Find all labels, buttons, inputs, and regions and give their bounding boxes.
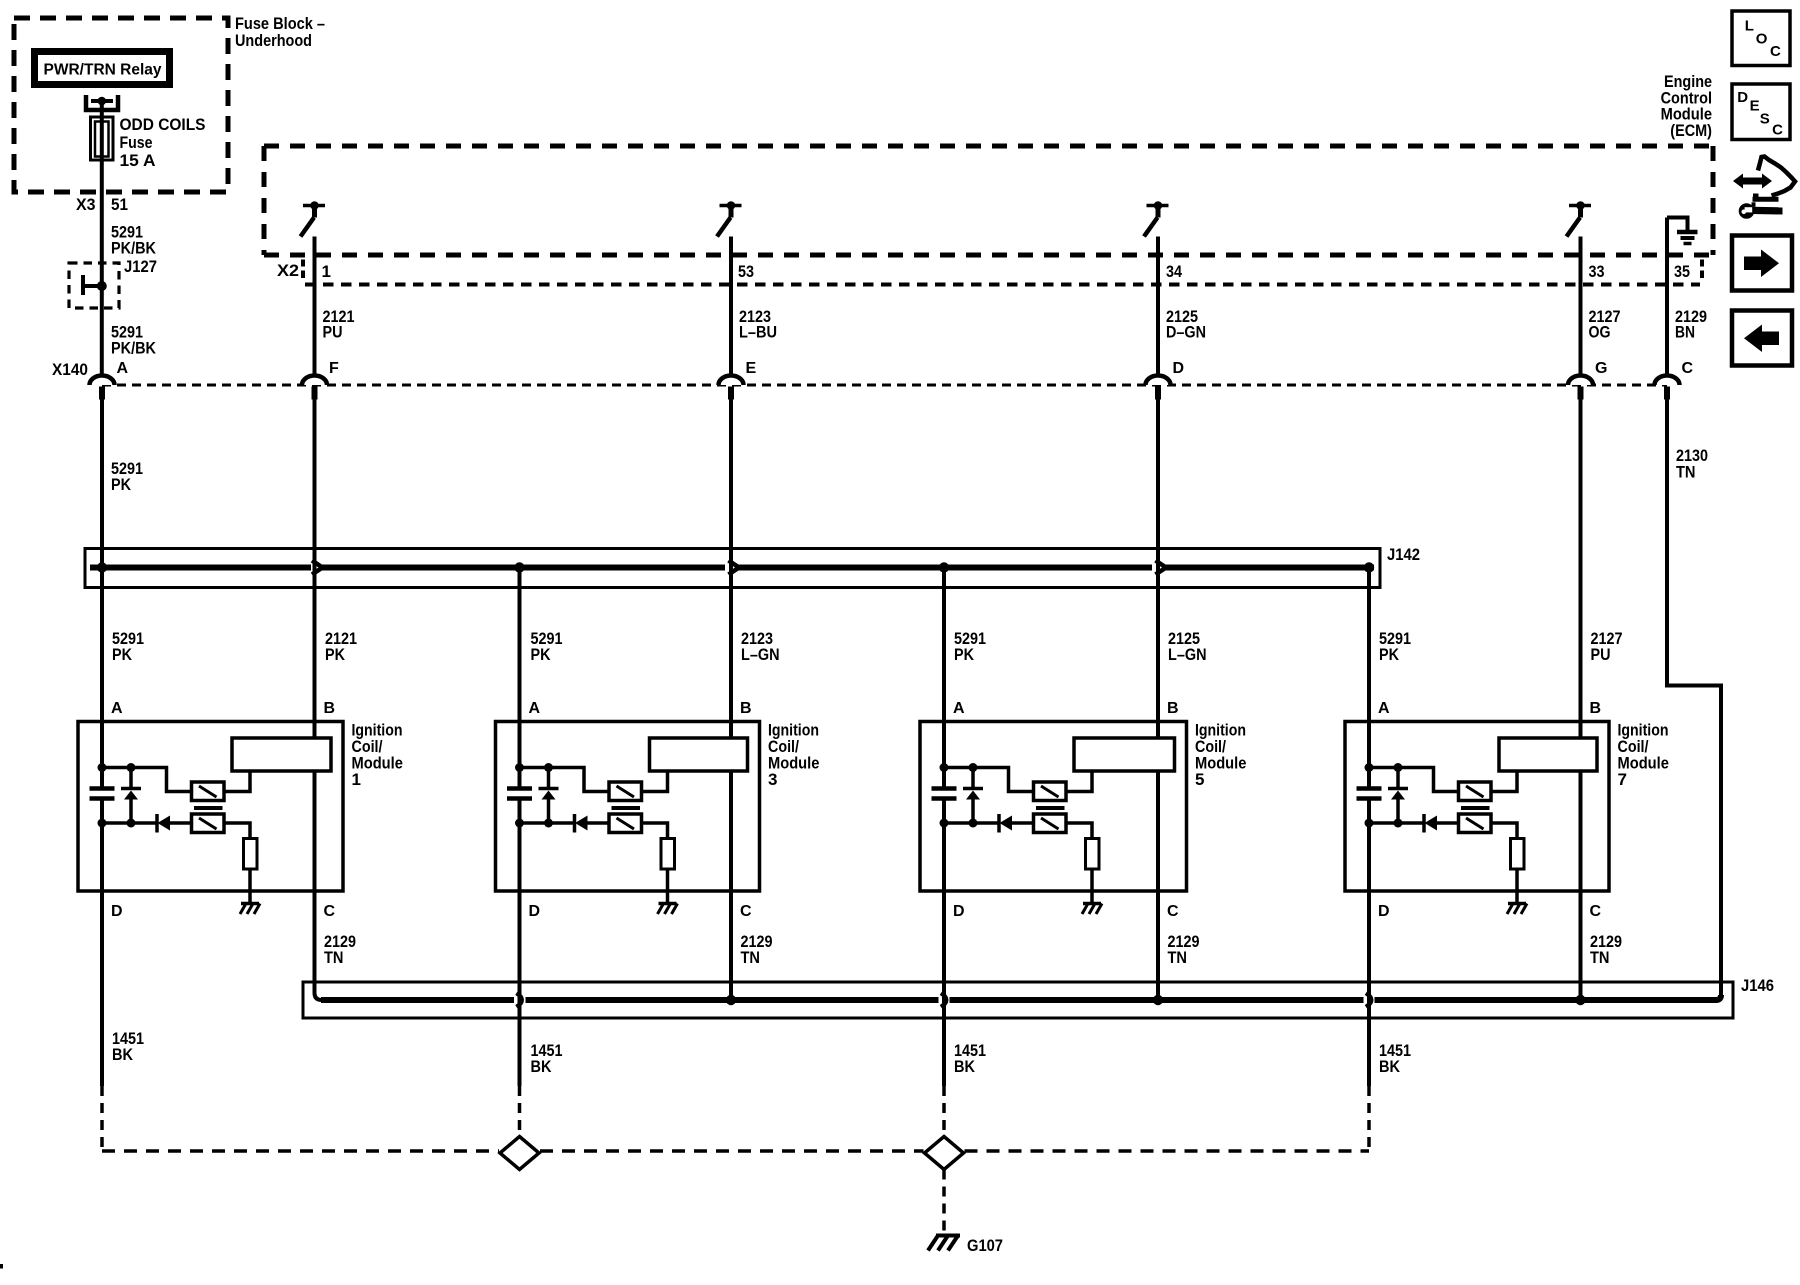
svg-text:X3: X3 xyxy=(76,195,96,214)
module 3 pin A-D wire xyxy=(518,801,522,892)
svg-text:Underhood: Underhood xyxy=(235,31,312,50)
module 5 internal lower node wire xyxy=(944,821,999,825)
connector X2 left separator xyxy=(301,260,305,279)
svg-text:1: 1 xyxy=(322,262,331,281)
svg-text:3: 3 xyxy=(768,770,777,789)
module 5 wire resistor to ground xyxy=(1090,868,1094,904)
wire 5291 PK to module pin A xyxy=(942,568,946,787)
J142 junction dot xyxy=(939,562,949,572)
splice pack J142 main line xyxy=(90,565,311,571)
icon DESC box xyxy=(1732,84,1790,140)
connector X140 terminal D xyxy=(1146,376,1171,385)
svg-text:OG: OG xyxy=(1589,323,1611,342)
module 1 pin A-D wire xyxy=(100,801,104,892)
module 5 transformer core xyxy=(1036,806,1065,810)
J146 junction dot xyxy=(1575,995,1585,1005)
module 5 transformer secondary winding xyxy=(1034,814,1067,833)
svg-text:15 A: 15 A xyxy=(120,151,156,170)
module 7 capacitor xyxy=(1357,786,1382,791)
module 3 chassis ground xyxy=(659,902,677,906)
svg-text:D: D xyxy=(1737,89,1748,106)
svg-text:C: C xyxy=(1167,903,1179,920)
J146 junction dot xyxy=(726,995,736,1005)
svg-text:A: A xyxy=(953,700,965,717)
module 5 pin B wire through coil xyxy=(1156,722,1160,738)
module 7 wire resistor to ground xyxy=(1515,868,1519,904)
wire 2121 col F xyxy=(313,399,317,738)
module 7 transformer core xyxy=(1461,806,1490,810)
module 3 wire winding2 to resistor xyxy=(642,823,668,839)
svg-text:C: C xyxy=(1590,903,1602,920)
splice pack J146 box xyxy=(303,982,1733,1018)
module 5 resistor xyxy=(1086,839,1100,870)
svg-text:O: O xyxy=(1756,31,1768,48)
svg-text:PK/BK: PK/BK xyxy=(111,339,157,358)
connector X140 terminal F xyxy=(302,376,327,385)
J146 junction dot xyxy=(1153,995,1163,1005)
wires: ECM drivers down to X140 xyxy=(313,237,317,376)
module 7 wire winding1 to coil block xyxy=(1491,771,1517,792)
wire 1451 BK module D down xyxy=(942,891,946,1086)
module 5 chassis ground xyxy=(1083,902,1101,906)
splice diamond (right) xyxy=(925,1137,964,1170)
icon back arrow box xyxy=(1732,311,1792,366)
module 3 coil block xyxy=(650,738,748,771)
svg-text:J142: J142 xyxy=(1387,545,1420,564)
J142 junction dot xyxy=(514,562,524,572)
connector X2 dotted line xyxy=(305,283,1700,287)
svg-text:A: A xyxy=(111,700,123,717)
dashed ground bus line xyxy=(102,1149,499,1153)
module 3 wire resistor to ground xyxy=(666,868,670,904)
fuse F: ODD COILS Fuse 15 A xyxy=(91,117,114,160)
module 5 wire winding1 to coil block xyxy=(1066,771,1092,792)
svg-text:G107: G107 xyxy=(967,1236,1003,1255)
ECM ignition coil driver (pin 34) xyxy=(1147,204,1169,208)
module 3 internal top node wire xyxy=(520,768,610,792)
ground G107 symbol xyxy=(936,1234,960,1238)
wire 5291 PK col A xyxy=(100,399,104,787)
wire 2129 TN module 1 C to J146 xyxy=(315,891,323,1000)
module 3 transformer secondary winding xyxy=(609,814,642,833)
svg-text:51: 51 xyxy=(111,195,128,214)
svg-text:C: C xyxy=(740,903,752,920)
svg-text:BK: BK xyxy=(954,1057,976,1076)
svg-text:X2: X2 xyxy=(277,261,299,280)
wire 1451 BK module D down xyxy=(100,891,104,1086)
ECM internal ground at pin 35 xyxy=(1667,218,1688,231)
svg-text:TN: TN xyxy=(1590,948,1610,967)
svg-text:A: A xyxy=(117,360,129,377)
ECM dashed box xyxy=(264,144,1713,149)
ECM ignition coil driver (pin 53) xyxy=(720,204,742,208)
module 1 zener diode xyxy=(129,768,133,789)
module 5 wire winding2 to resistor xyxy=(1066,823,1092,839)
icon next arrow box xyxy=(1732,236,1792,291)
connector X140 terminal E xyxy=(719,376,744,385)
module 5 zener diode xyxy=(971,768,975,789)
module 3 transformer primary winding xyxy=(609,782,642,801)
module 1 pin B wire through coil xyxy=(313,722,317,738)
wire: relay to fuse to X3 pin 51 xyxy=(100,101,104,375)
svg-text:7: 7 xyxy=(1618,770,1627,789)
dashed ground wire col 4 xyxy=(1367,1086,1371,1151)
svg-text:D: D xyxy=(1173,360,1185,377)
module 3 transformer core xyxy=(612,806,641,810)
splice J127 symbol xyxy=(81,275,85,295)
module 5 pin A-D wire xyxy=(942,801,946,892)
svg-text:D: D xyxy=(529,903,541,920)
svg-text:B: B xyxy=(324,700,336,717)
ignition coil/module 1 box xyxy=(78,722,343,892)
svg-text:ODD COILS: ODD COILS xyxy=(120,115,206,134)
wire 1451 BK module D down xyxy=(1367,891,1371,1086)
module 7 transformer secondary winding xyxy=(1459,814,1492,833)
module 1 wire winding1 to coil block xyxy=(224,771,250,792)
dashed ground wire col 1 xyxy=(100,1086,104,1151)
wire 5291 PK to module pin A xyxy=(100,568,104,787)
svg-text:L: L xyxy=(1745,18,1754,35)
splice pack J146 main line xyxy=(321,997,514,1003)
connector X140 dotted line xyxy=(102,384,1667,387)
J142 pass-through arrow xyxy=(1156,561,1167,575)
wire 2129 TN module C to J146 xyxy=(1579,891,1583,1000)
icon two-way arrow with wrench xyxy=(1733,174,1772,189)
module 7 chassis ground xyxy=(1508,902,1526,906)
svg-text:PK: PK xyxy=(325,645,346,664)
svg-text:J146: J146 xyxy=(1741,976,1774,995)
svg-text:5: 5 xyxy=(1195,770,1204,789)
J142 junction dot xyxy=(97,562,107,572)
module 3 wire winding1 to coil block xyxy=(642,771,668,792)
module 5 transformer primary winding xyxy=(1034,782,1067,801)
svg-text:D–GN: D–GN xyxy=(1166,323,1206,342)
svg-text:34: 34 xyxy=(1166,262,1182,281)
svg-text:PK: PK xyxy=(531,645,552,664)
svg-text:PWR/TRN Relay: PWR/TRN Relay xyxy=(44,62,162,79)
module 1 wire resistor to ground xyxy=(248,868,252,904)
svg-text:PU: PU xyxy=(1591,645,1611,664)
ignition coil/module 3 box xyxy=(496,722,760,892)
wire 2129 TN module C to J146 xyxy=(1156,891,1160,1000)
svg-text:BK: BK xyxy=(1379,1057,1401,1076)
module 7 internal top node wire xyxy=(1369,768,1459,792)
module 7 transformer primary winding xyxy=(1459,782,1492,801)
ignition coil/module 5 box xyxy=(920,722,1187,892)
svg-text:B: B xyxy=(1590,700,1602,717)
svg-text:C: C xyxy=(324,903,336,920)
svg-text:TN: TN xyxy=(324,948,344,967)
relay K: PWR/TRN Relay xyxy=(31,48,173,88)
svg-text:J127: J127 xyxy=(124,257,157,276)
svg-text:BK: BK xyxy=(112,1045,134,1064)
svg-text:PK: PK xyxy=(954,645,975,664)
module 7 coil block xyxy=(1499,738,1597,771)
module 5 diode xyxy=(997,814,1001,833)
module 1 capacitor xyxy=(90,786,115,791)
module 7 diode xyxy=(1422,814,1426,833)
svg-text:D: D xyxy=(953,903,965,920)
module 1 coil block xyxy=(232,738,331,771)
svg-text:S: S xyxy=(1760,111,1770,128)
module 5 capacitor xyxy=(932,786,957,791)
module 3 internal lower node wire xyxy=(520,821,575,825)
J146 pass-through hop xyxy=(941,993,946,1007)
svg-text:PK: PK xyxy=(112,645,133,664)
svg-text:F: F xyxy=(329,360,339,377)
dashed ground wire col 2 xyxy=(518,1086,522,1136)
svg-text:D: D xyxy=(1378,903,1390,920)
svg-text:PK: PK xyxy=(1379,645,1400,664)
module 7 internal lower node wire xyxy=(1369,821,1424,825)
svg-text:BN: BN xyxy=(1675,323,1695,342)
module 1 internal top node wire xyxy=(102,768,192,792)
connector X2 right separator xyxy=(1700,260,1704,279)
svg-text:B: B xyxy=(740,700,752,717)
svg-text:C: C xyxy=(1772,122,1783,139)
module 3 resistor xyxy=(661,839,675,870)
module 1 transformer secondary winding xyxy=(192,814,225,833)
svg-text:35: 35 xyxy=(1674,262,1690,281)
module 7 resistor xyxy=(1511,839,1525,870)
module 3 pin B wire through coil xyxy=(729,722,733,738)
module 1 chassis ground xyxy=(241,902,259,906)
module 5 internal top node wire xyxy=(944,768,1034,792)
module 7 zener diode xyxy=(1396,768,1400,789)
module 7 pin A-D wire xyxy=(1367,801,1371,892)
dashed wire to G107 xyxy=(942,1170,946,1234)
svg-text:C: C xyxy=(1770,43,1781,60)
wire 2123 col E xyxy=(729,399,733,738)
svg-text:BK: BK xyxy=(531,1057,553,1076)
svg-text:E: E xyxy=(1750,98,1760,115)
svg-text:PU: PU xyxy=(323,323,343,342)
svg-text:Fuse: Fuse xyxy=(120,133,153,152)
module 7 wire winding2 to resistor xyxy=(1491,823,1517,839)
connector X140 terminal G xyxy=(1568,376,1593,385)
splice pack J142 box xyxy=(85,549,1380,588)
splice J127 dashed box xyxy=(69,263,119,308)
fuse block underhood dashed box xyxy=(14,18,228,192)
connector X140 terminal C xyxy=(1655,376,1680,385)
svg-text:E: E xyxy=(746,360,757,377)
module 3 capacitor xyxy=(507,786,532,791)
svg-text:L–BU: L–BU xyxy=(739,323,777,342)
svg-text:L–GN: L–GN xyxy=(1168,645,1207,664)
module 3 zener diode xyxy=(547,768,551,789)
ignition coil/module 7 box xyxy=(1345,722,1609,892)
J142 junction dot xyxy=(1364,562,1374,572)
module 3 diode xyxy=(573,814,577,833)
svg-text:A: A xyxy=(1378,700,1390,717)
module 1 resistor xyxy=(244,839,258,870)
svg-text:33: 33 xyxy=(1589,262,1605,281)
svg-text:G: G xyxy=(1595,360,1607,377)
svg-text:TN: TN xyxy=(1676,463,1696,482)
svg-text:X140: X140 xyxy=(52,360,88,379)
ECM ignition coil driver (pin 1) xyxy=(303,204,325,208)
module 1 internal lower node wire xyxy=(102,821,157,825)
ECM ignition coil driver (pin 33) xyxy=(1569,204,1591,208)
J142 pass-through arrow xyxy=(729,561,740,575)
fuse holder bracket xyxy=(86,95,118,110)
J146 pass-through hop xyxy=(1366,993,1371,1007)
J142 pass-through arrow xyxy=(312,561,323,575)
svg-text:53: 53 xyxy=(738,262,754,281)
wire: ECM pin 35 (2129 BN) down to X140 C xyxy=(1665,218,1669,376)
wire 2129 TN module C to J146 xyxy=(729,891,733,1000)
J146 pass-through hop xyxy=(517,993,522,1007)
stray mark bottom-left xyxy=(0,1264,3,1269)
module 1 transformer core xyxy=(194,806,223,810)
svg-text:C: C xyxy=(1682,360,1694,377)
svg-text:L–GN: L–GN xyxy=(741,645,780,664)
module 1 wire winding2 to resistor xyxy=(224,823,250,839)
module 7 pin B wire through coil xyxy=(1579,722,1583,738)
svg-text:B: B xyxy=(1167,700,1179,717)
module 1 diode xyxy=(155,814,159,833)
svg-text:TN: TN xyxy=(741,948,761,967)
wire 2130 TN from X140 C to J146 xyxy=(1667,399,1721,998)
svg-text:D: D xyxy=(111,903,123,920)
icon LOC box xyxy=(1732,11,1790,66)
svg-text:(ECM): (ECM) xyxy=(1670,121,1712,140)
wire 1451 BK module D down xyxy=(518,891,522,1086)
wire 5291 PK to module pin A xyxy=(518,568,522,787)
wire 2125 col D xyxy=(1156,399,1160,738)
connector X140 terminal A xyxy=(90,376,115,385)
svg-text:PK/BK: PK/BK xyxy=(111,239,157,258)
svg-text:A: A xyxy=(529,700,541,717)
module 5 coil block xyxy=(1074,738,1175,771)
wire 2127 col G xyxy=(1579,399,1583,738)
svg-text:PK: PK xyxy=(111,475,132,494)
wire 5291 PK to module pin A xyxy=(1367,568,1371,787)
svg-text:TN: TN xyxy=(1168,948,1188,967)
splice diamond (left) xyxy=(500,1137,539,1170)
svg-text:1: 1 xyxy=(352,770,361,789)
dashed ground wire col 3 xyxy=(942,1086,946,1136)
module 1 transformer primary winding xyxy=(192,782,225,801)
